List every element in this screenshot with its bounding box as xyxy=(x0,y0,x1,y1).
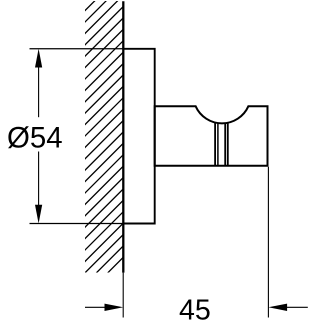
diameter dimension line lower segment xyxy=(38,152,40,215)
hook neck groove line 1 xyxy=(214,122,216,165)
hook neck groove line 3 xyxy=(224,123,226,166)
hook body outline xyxy=(155,106,268,166)
wall hatching xyxy=(70,0,130,311)
hook neck groove line 4 xyxy=(227,122,229,165)
svg-text:45: 45 xyxy=(179,294,211,320)
diameter dimension upper arrowhead xyxy=(35,49,42,68)
hook neck groove line 2 xyxy=(217,123,219,166)
diameter dimension lower arrowhead xyxy=(35,205,42,224)
depth dimension right arrow tail xyxy=(285,306,308,308)
mounting plate top extension line xyxy=(30,48,124,50)
depth dimension left extension line xyxy=(122,273,124,318)
depth dimension left arrow tail xyxy=(85,306,106,308)
diameter dimension line upper segment xyxy=(38,58,40,117)
wall surface line xyxy=(122,1,124,272)
depth dimension right arrowhead xyxy=(268,304,287,311)
depth dimension left arrowhead xyxy=(105,304,124,311)
depth dimension right extension line xyxy=(267,167,269,318)
mounting plate outline xyxy=(123,49,154,224)
mounting plate bottom extension line xyxy=(30,223,124,225)
svg-text:Ø54: Ø54 xyxy=(7,122,63,155)
